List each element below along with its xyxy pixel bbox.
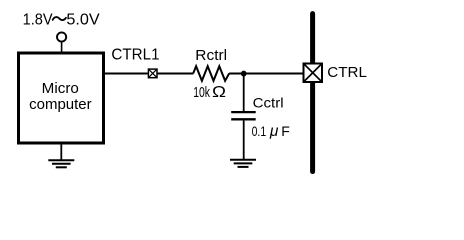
svg-text:10k: 10k xyxy=(193,84,210,101)
svg-text:computer: computer xyxy=(29,96,92,113)
svg-text:CTRL1: CTRL1 xyxy=(111,47,159,64)
svg-text:Micro: Micro xyxy=(42,80,79,97)
svg-text:Ω: Ω xyxy=(212,84,226,101)
svg-text:1.8V: 1.8V xyxy=(23,12,53,29)
svg-text:μ: μ xyxy=(269,123,279,140)
svg-text:Cctrl: Cctrl xyxy=(253,95,284,111)
svg-text:F: F xyxy=(281,123,290,139)
svg-text:Rctrl: Rctrl xyxy=(195,48,227,64)
svg-text:0.1: 0.1 xyxy=(252,123,267,139)
svg-text:CTRL: CTRL xyxy=(327,64,367,81)
svg-text:5.0V: 5.0V xyxy=(66,12,100,29)
